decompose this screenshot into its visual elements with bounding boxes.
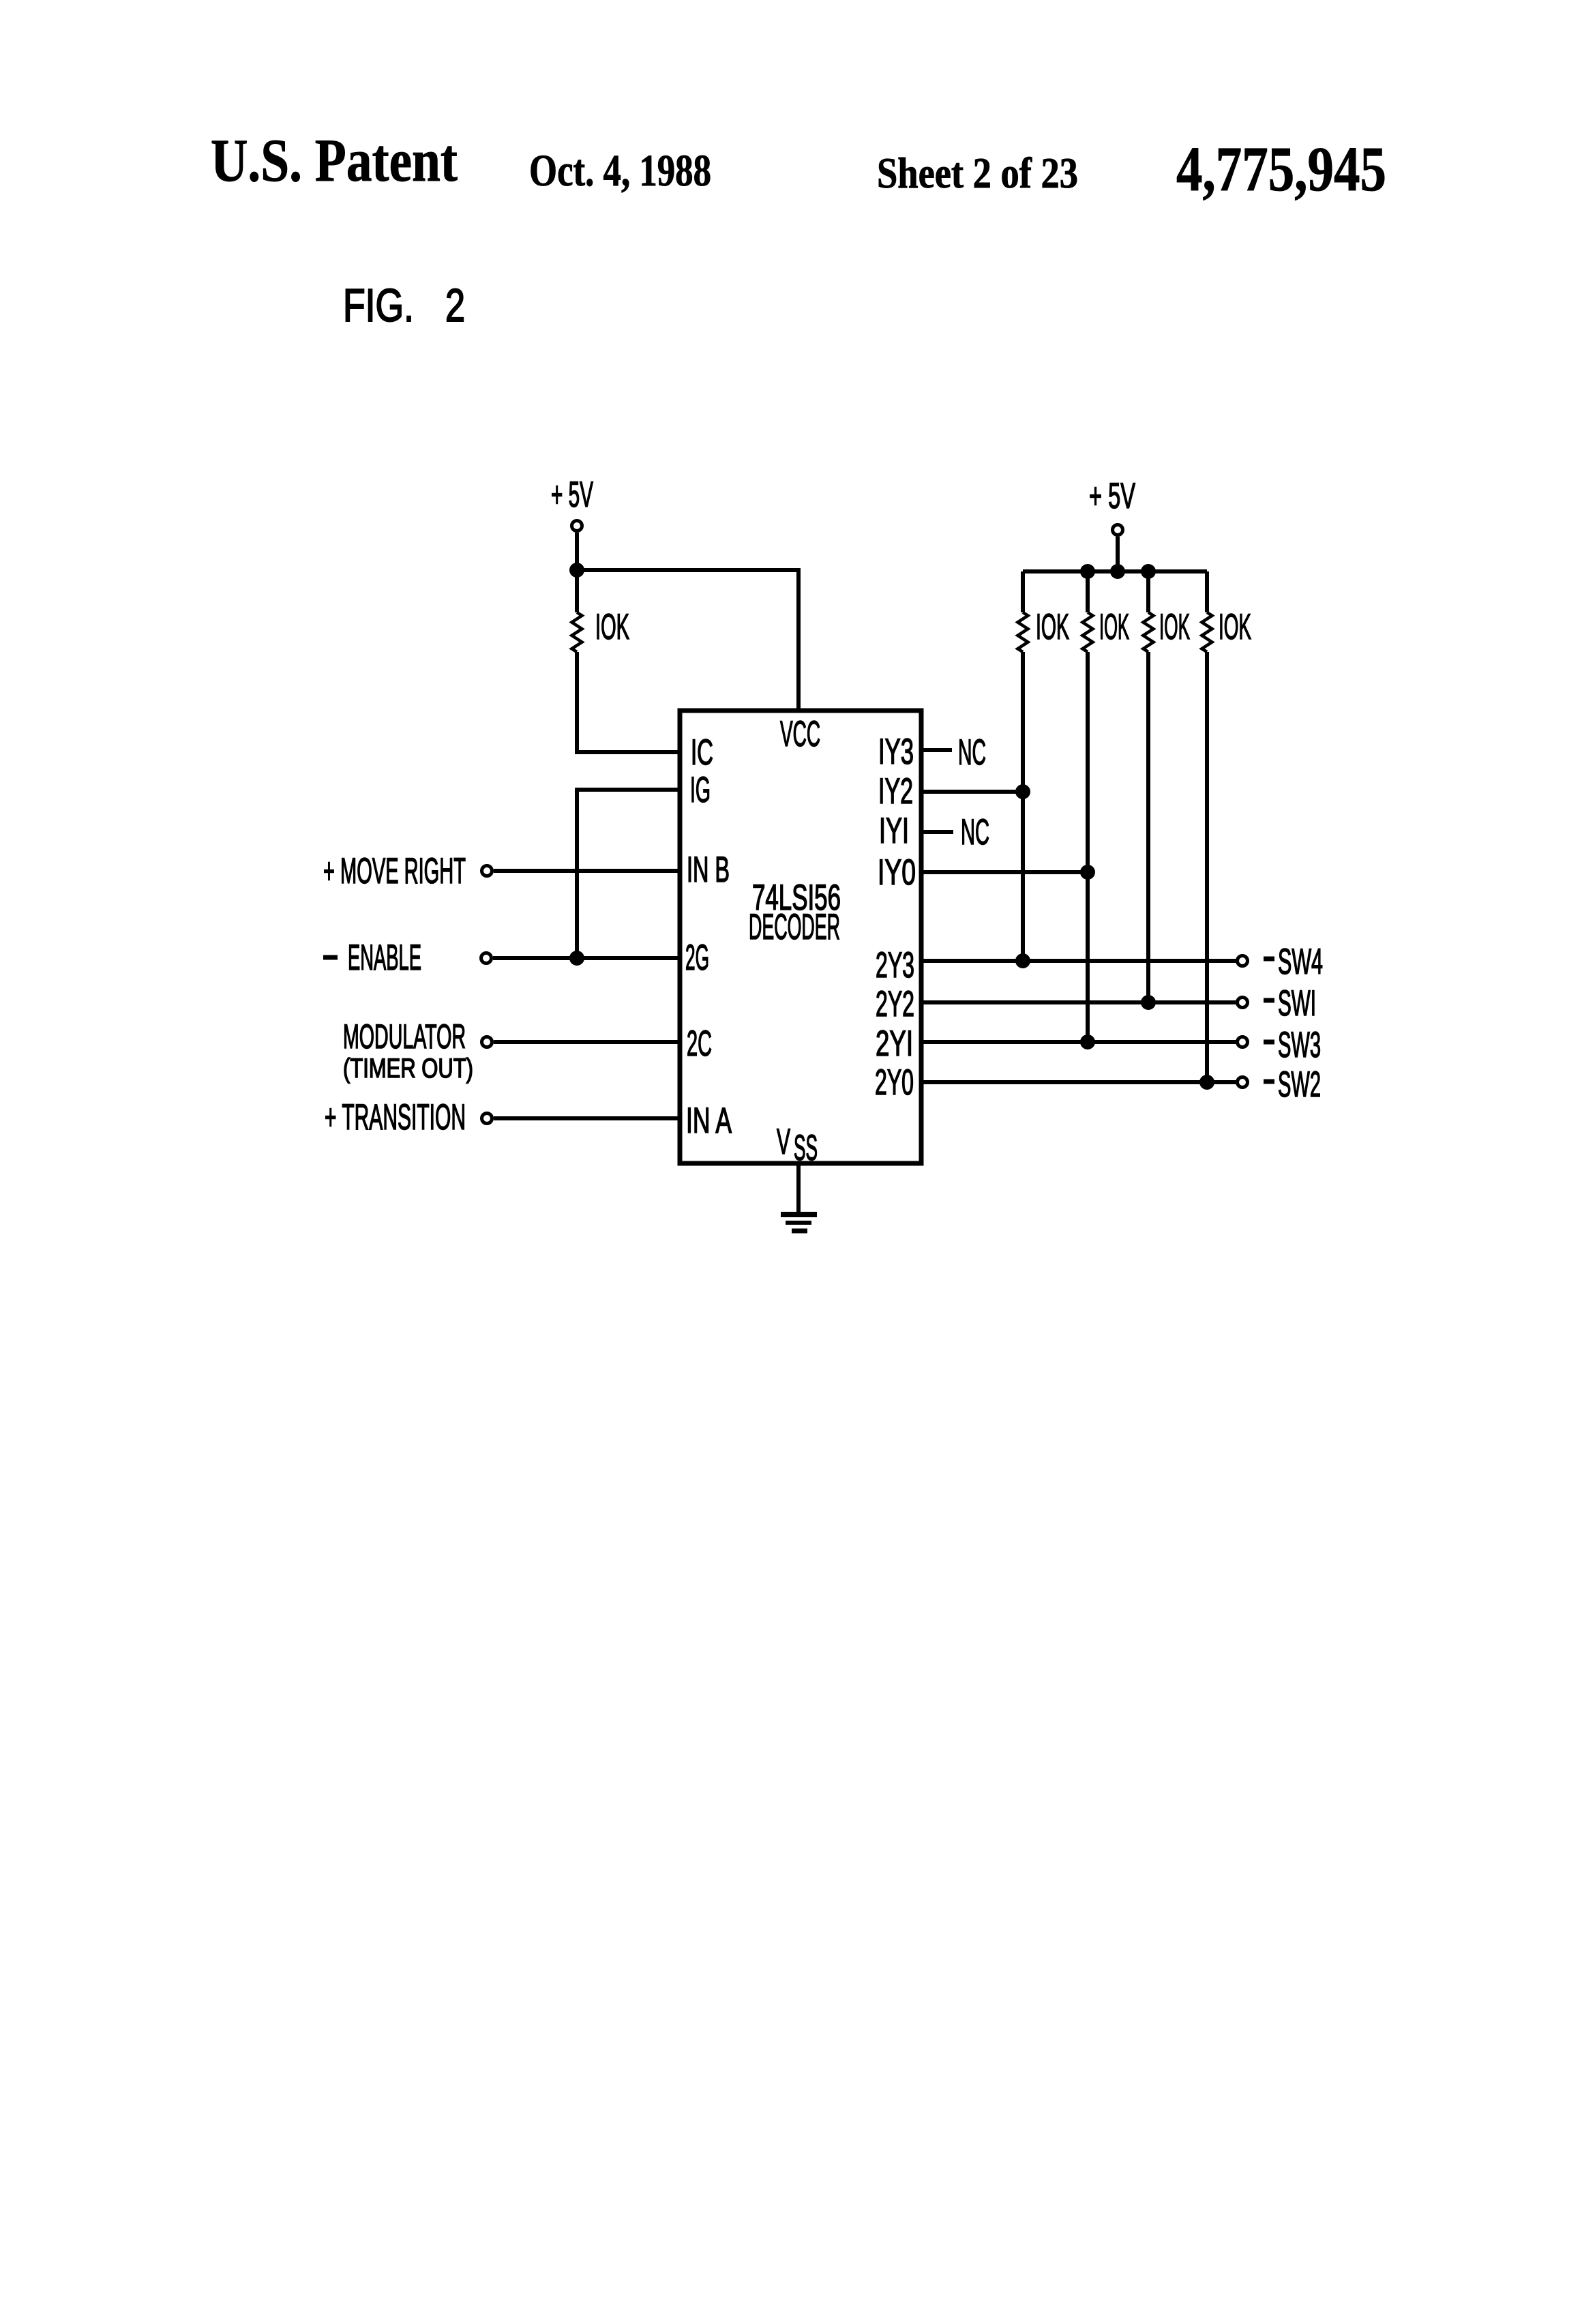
wire: pin 1Y1 NC stub <box>921 830 953 834</box>
svg-text:IY2: IY2 <box>878 771 913 811</box>
svg-text:IOK: IOK <box>1159 607 1190 647</box>
junction dot 1Y2/L1 <box>1015 784 1030 799</box>
wire: pin 2Y0 to -SW2 <box>921 1080 1236 1084</box>
svg-text:SW4: SW4 <box>1278 942 1323 982</box>
svg-text:IN A: IN A <box>686 1101 732 1141</box>
svg-text:2Y2: 2Y2 <box>876 984 914 1024</box>
wire: pin 2Y3 to -SW4 <box>921 959 1236 963</box>
wire: pin 1Y0 to L2 <box>921 870 1088 874</box>
junction dot at +5V rail (left) <box>569 563 584 578</box>
svg-text:IC: IC <box>691 732 713 773</box>
terminal MODULATOR <box>482 1037 492 1047</box>
svg-text:MODULATOR: MODULATOR <box>343 1017 466 1056</box>
terminal +TRANSITION <box>482 1114 492 1124</box>
wire: pin 2Y1 to -SW3 <box>921 1040 1236 1044</box>
junction dot 2Y0/L4 <box>1199 1075 1214 1090</box>
wire: -ENABLE to pin 2G <box>493 956 680 960</box>
svg-text:IOK: IOK <box>1099 607 1129 647</box>
svg-text:V: V <box>777 1122 790 1162</box>
resistor R2 10K (line L1) <box>1018 571 1028 961</box>
svg-text:Oct. 4, 1988: Oct. 4, 1988 <box>529 146 711 196</box>
terminal -SW2 <box>1238 1077 1248 1088</box>
ground <box>781 1215 817 1231</box>
svg-text:2C: 2C <box>687 1024 712 1064</box>
terminal +MOVE RIGHT <box>482 866 492 876</box>
svg-text:2: 2 <box>445 280 465 331</box>
svg-text:+ 5V: + 5V <box>551 475 593 515</box>
svg-text:DECODER: DECODER <box>749 907 840 947</box>
output label -SW2 <box>1264 1079 1274 1084</box>
terminal -SW3 <box>1238 1037 1248 1047</box>
svg-text:2Y3: 2Y3 <box>876 945 914 985</box>
wire: +TRANSITION to pin IN A <box>494 1116 680 1120</box>
svg-text:+ MOVE RIGHT: + MOVE RIGHT <box>323 851 466 891</box>
wire: MODULATOR to pin 2C <box>494 1040 680 1044</box>
junction dot on -ENABLE line <box>569 951 584 966</box>
svg-text:+ 5V: + 5V <box>1089 476 1135 516</box>
terminal -SW4 <box>1238 956 1248 966</box>
svg-text:2YI: 2YI <box>876 1024 913 1064</box>
svg-text:ENABLE: ENABLE <box>348 938 421 978</box>
wire: pin 1G to -ENABLE line <box>577 790 680 958</box>
svg-text:SS: SS <box>794 1128 818 1168</box>
svg-text:+ TRANSITION: + TRANSITION <box>325 1097 466 1137</box>
output label -SW1 <box>1264 998 1274 1003</box>
wire: +5V rail bus (right) <box>1023 569 1207 573</box>
svg-text:SW2: SW2 <box>1278 1064 1321 1105</box>
wire: resistor R1 bottom to pin 1C <box>577 652 680 752</box>
svg-text:NC: NC <box>958 732 986 773</box>
svg-text:U.S. Patent: U.S. Patent <box>211 128 458 194</box>
svg-text:IYI: IYI <box>879 811 909 851</box>
junction dot rail/L3 <box>1141 564 1156 579</box>
wire: pin 2Y2 to -SW1 <box>921 1000 1236 1004</box>
svg-text:SW3: SW3 <box>1278 1025 1321 1065</box>
junction dot rail/stem <box>1110 564 1125 579</box>
svg-text:IG: IG <box>690 770 711 810</box>
figure label FIG. 2 <box>343 280 465 331</box>
svg-text:FIG.: FIG. <box>343 280 414 331</box>
wire: VSS to ground <box>796 1163 801 1214</box>
junction dot 2Y2/L3 <box>1141 995 1156 1010</box>
svg-text:(TIMER OUT): (TIMER OUT) <box>343 1054 473 1084</box>
wire: +5V terminal stem (left) <box>575 533 579 566</box>
svg-text:IOK: IOK <box>1036 607 1069 647</box>
svg-text:IN B: IN B <box>687 850 730 890</box>
wire: pin 1Y2 to L1 <box>921 790 1023 794</box>
junction dot 2Y3/L1 <box>1015 953 1030 968</box>
svg-text:IY0: IY0 <box>878 852 916 893</box>
resistor R5 10K (line L4) <box>1202 571 1212 1082</box>
junction dot 1Y0/L2 <box>1080 865 1095 880</box>
wire: +MOVE RIGHT to pin IN B <box>494 869 680 873</box>
resistor R1 10K (left pull-up) <box>572 612 582 652</box>
junction dot 2Y1/L2 <box>1080 1034 1095 1049</box>
svg-text:IOK: IOK <box>595 607 629 647</box>
output label -SW3 <box>1264 1040 1274 1045</box>
svg-text:2G: 2G <box>685 938 709 978</box>
svg-text:VCC: VCC <box>780 714 820 754</box>
IC U1 74LS156 decoder body <box>680 711 921 1163</box>
svg-text:4,775,945: 4,775,945 <box>1176 134 1386 205</box>
resistor R3 10K (line L2) <box>1083 571 1093 1042</box>
wire: +5V terminal stem (right) <box>1116 537 1120 571</box>
terminal -SW1 <box>1238 998 1248 1008</box>
svg-text:2Y0: 2Y0 <box>875 1062 914 1103</box>
terminal -ENABLE <box>481 953 492 964</box>
input label -ENABLE <box>323 955 338 960</box>
svg-text:Sheet 2 of 23: Sheet 2 of 23 <box>877 149 1078 197</box>
svg-text:NC: NC <box>961 812 989 852</box>
svg-text:SWI: SWI <box>1278 983 1316 1024</box>
terminal +5V (left) <box>572 521 582 531</box>
junction dot rail/L2 <box>1080 564 1095 579</box>
svg-text:IY3: IY3 <box>878 732 914 772</box>
terminal +5V (right) <box>1113 525 1123 535</box>
svg-text:IOK: IOK <box>1219 607 1251 647</box>
wire: +5V to VCC pin <box>577 570 799 713</box>
output label -SW4 <box>1264 957 1274 962</box>
wire: pin 1Y3 NC stub <box>921 748 952 752</box>
resistor R4 10K (line L3) <box>1144 571 1154 1002</box>
wire: dot to resistor R1 top <box>575 570 579 612</box>
